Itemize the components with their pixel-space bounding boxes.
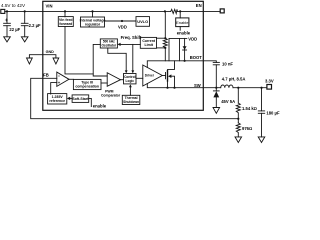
svg-text:forward: forward xyxy=(59,22,72,26)
capacitor C4 output 180uF xyxy=(258,88,264,137)
wire BOOT rail xyxy=(147,61,203,68)
svg-text:22 µF: 22 µF xyxy=(9,27,20,32)
ground (output cap) xyxy=(258,137,265,143)
svg-text:976Ω: 976Ω xyxy=(242,126,252,131)
svg-text:1.54 kΩ: 1.54 kΩ xyxy=(242,106,257,111)
svg-text:Driver: Driver xyxy=(145,74,155,78)
resistor R4 current sense xyxy=(163,38,167,48)
ground (catch diode) xyxy=(213,108,220,114)
arrow into control logic 2 xyxy=(131,70,134,73)
wire to Vin feed forward xyxy=(64,11,66,16)
svg-text:4.7 µH, 8.5A: 4.7 µH, 8.5A xyxy=(222,77,246,82)
ground (C1) xyxy=(4,37,11,42)
wire VIN to sense resistor xyxy=(164,11,166,38)
svg-text:GND: GND xyxy=(46,50,55,54)
wire oscillator to control logic 1 xyxy=(108,48,126,71)
wire thermal to control logic xyxy=(129,87,131,95)
block Type III compensation xyxy=(73,79,101,89)
capacitor C2 2.2uF xyxy=(21,11,28,36)
wire soft-start to reference xyxy=(70,97,72,99)
svg-text:Oscillator: Oscillator xyxy=(101,43,116,47)
svg-text:Shutdown: Shutdown xyxy=(123,100,139,104)
node cap2 junction xyxy=(24,10,26,12)
svg-text:10 nF: 10 nF xyxy=(222,61,233,66)
node FB divider xyxy=(237,118,239,120)
svg-text:enable: enable xyxy=(177,30,191,35)
svg-text:2.2 µF: 2.2 µF xyxy=(29,23,41,28)
block Thermal Shutdown xyxy=(122,95,140,104)
node sense top xyxy=(164,37,166,39)
svg-text:EN: EN xyxy=(196,3,202,8)
node body-SW xyxy=(173,87,175,89)
block Enable xyxy=(176,18,189,27)
wire SW rail xyxy=(147,84,203,88)
node EN resistor left xyxy=(164,10,166,12)
wire regulator to UVLO xyxy=(105,20,137,22)
svg-text:Logic: Logic xyxy=(126,79,135,83)
capacitor C3 boot 10nF xyxy=(204,61,220,88)
node divider tap xyxy=(237,87,239,89)
node sense bottom xyxy=(164,47,166,49)
svg-text:4.5V to 42V: 4.5V to 42V xyxy=(1,3,26,8)
IC U1 regulator block xyxy=(43,1,204,110)
arrow into control logic 1 xyxy=(125,70,128,73)
wire gate xyxy=(162,75,165,77)
op-amp U2 gate driver xyxy=(143,65,163,86)
svg-text:Limit: Limit xyxy=(145,43,154,47)
wire to regulator xyxy=(92,11,94,17)
wire GND xyxy=(29,55,56,58)
ground (R2) xyxy=(235,137,242,143)
terminal J2 3.3V output xyxy=(267,85,272,90)
node source-SW xyxy=(166,87,168,89)
svg-text:enable: enable xyxy=(93,103,107,108)
block 1.285V reference xyxy=(48,94,67,104)
svg-text:SW: SW xyxy=(194,83,201,88)
terminal J1 VIN input xyxy=(1,9,5,13)
wire compensation to PWM comparator xyxy=(101,82,107,84)
block Vin feed forward xyxy=(58,17,73,27)
wire SW external xyxy=(203,87,220,89)
svg-text:FB: FB xyxy=(43,73,49,78)
wire to Enable block xyxy=(179,11,181,18)
wire oscillator to control logic 2 xyxy=(132,44,134,70)
diode D2 boot xyxy=(183,38,187,60)
block Control Logic xyxy=(124,74,137,84)
svg-text:compensation: compensation xyxy=(75,85,99,89)
svg-text:Enable: Enable xyxy=(176,20,189,25)
wire reference to error amp xyxy=(51,83,57,94)
wire freq shift xyxy=(121,43,141,45)
wire current limit sense top xyxy=(157,37,166,39)
node output cap tap xyxy=(260,87,262,89)
arrow into oscillator xyxy=(117,43,120,46)
ground (GND right) xyxy=(53,58,59,64)
svg-text:reference: reference xyxy=(49,99,65,103)
capacitor C1 22uF polarized xyxy=(4,11,11,36)
resistor R2 976 feedback lower xyxy=(236,119,240,137)
diode D1 catch 45V 5A xyxy=(213,88,219,108)
svg-text:Soft-Start: Soft-Start xyxy=(72,97,89,101)
op-amp U3 error amplifier xyxy=(57,72,69,86)
svg-text:Freq. Shift: Freq. Shift xyxy=(121,35,142,40)
svg-text:3.3V: 3.3V xyxy=(265,79,274,84)
node input cap junction xyxy=(6,10,8,12)
ground (C2) xyxy=(21,37,28,42)
svg-text:VDD: VDD xyxy=(188,36,197,41)
node boot diode junction xyxy=(184,60,186,62)
wire feedforward to ramp xyxy=(65,27,93,74)
wire current limit sense bottom xyxy=(157,47,166,49)
arrow into control logic bottom xyxy=(129,84,132,87)
resistor R1 1.54k feedback upper xyxy=(236,88,240,119)
node feedforward tap xyxy=(64,10,66,12)
wire VDD stub rail xyxy=(169,38,187,60)
node enable tap xyxy=(179,10,181,12)
node VDD xyxy=(121,20,123,22)
wire control logic to driver xyxy=(136,77,143,79)
wire oscillator to ramp node xyxy=(93,44,107,76)
block 500 kHz oscillator xyxy=(100,39,117,48)
block internal voltage regulator xyxy=(81,17,105,27)
wire soft-start enable xyxy=(89,98,92,106)
transistor Q1 NMOS xyxy=(166,61,175,88)
wire comparator to control logic xyxy=(121,79,124,81)
inductor L1 xyxy=(221,85,233,88)
ground (GND left) xyxy=(27,58,33,64)
block Soft-Start xyxy=(72,95,89,103)
wire sense to drain rail xyxy=(164,48,166,61)
svg-text:UVLO: UVLO xyxy=(137,19,148,24)
svg-text:regulator: regulator xyxy=(85,22,101,26)
wire error amp out xyxy=(69,78,73,80)
svg-text:Comparator: Comparator xyxy=(101,93,121,97)
svg-text:VDD: VDD xyxy=(118,25,127,30)
svg-text:45V 5A: 45V 5A xyxy=(221,99,235,104)
svg-text:VIN: VIN xyxy=(46,4,53,9)
EN terminal xyxy=(220,9,224,13)
arrow into reference xyxy=(67,97,70,100)
wire enable out xyxy=(179,27,181,31)
wire resistor to EN pin xyxy=(177,10,220,12)
node SW junction xyxy=(215,87,217,89)
wire VIN input rail xyxy=(5,10,171,12)
block Current Limit xyxy=(140,37,156,48)
resistor R3 EN pull-up xyxy=(171,9,178,13)
node regulator tap xyxy=(91,10,93,12)
wire output rail xyxy=(233,87,267,89)
op-amp U4 PWM comparator xyxy=(107,73,120,87)
svg-text:BOOT: BOOT xyxy=(190,55,203,60)
block UVLO xyxy=(136,17,150,27)
svg-text:180 µF: 180 µF xyxy=(266,111,280,116)
wire boot aux xyxy=(179,38,181,60)
wire FB feedback xyxy=(31,78,239,118)
